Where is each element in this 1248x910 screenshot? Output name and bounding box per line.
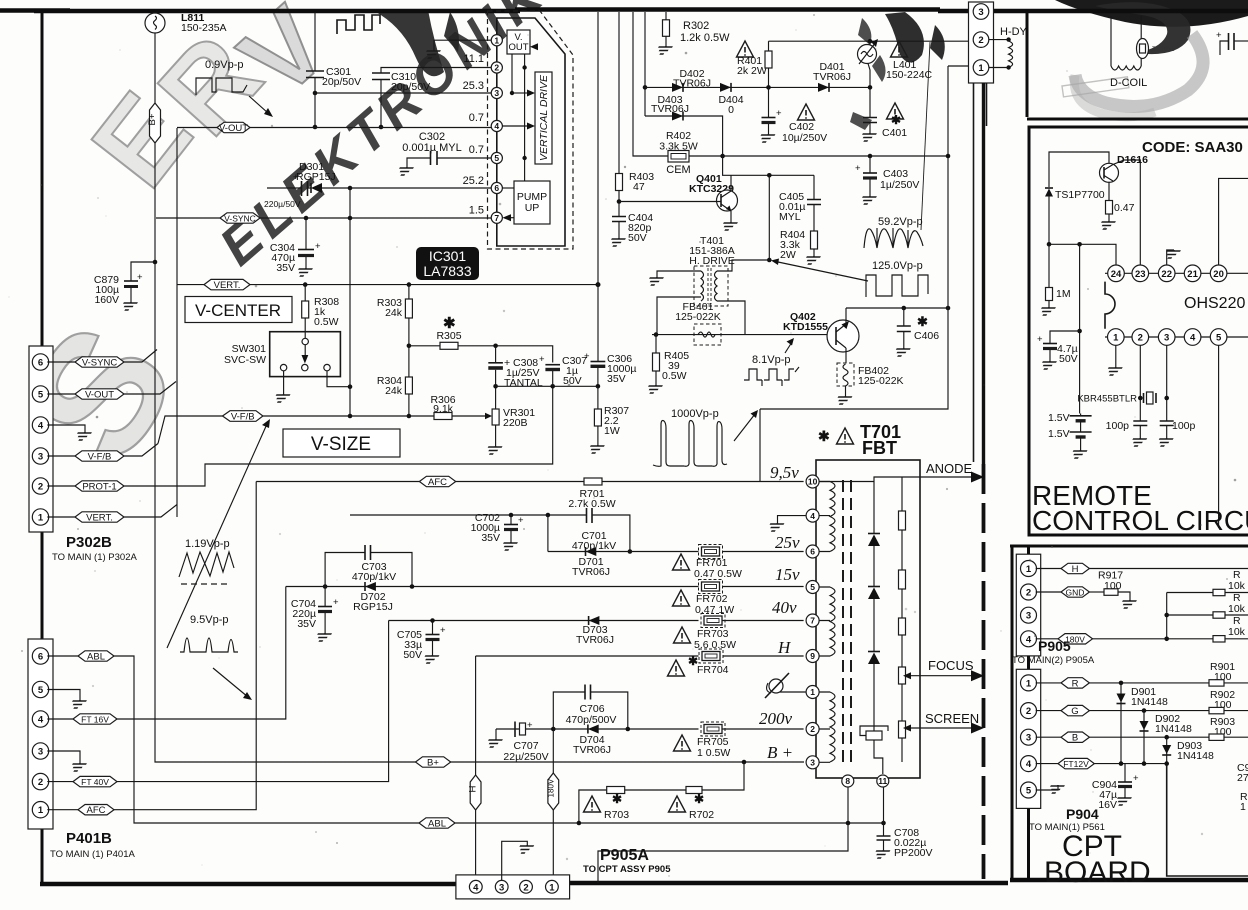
svg-text:ABL: ABL: [87, 652, 105, 663]
transistor D1616: [1100, 163, 1119, 182]
svg-text:FR704: FR704: [697, 664, 729, 676]
pin5 wire C302 right: [437, 157, 491, 159]
pin4 V-OUT line: [250, 127, 491, 129]
junction L401 top: [868, 39, 873, 44]
vertical x769 drop: [768, 175, 770, 260]
svg-text:TVR06J: TVR06J: [573, 744, 611, 756]
P401B pin 5: [32, 681, 48, 697]
junction R702 riser: [742, 760, 747, 765]
ground C404: [608, 238, 626, 246]
diode D402: [672, 83, 683, 92]
svg-text:T1 1051: T1 1051: [1152, 47, 1175, 53]
junction C304: [304, 216, 309, 221]
svg-text:9: 9: [810, 651, 815, 661]
H-DY pin1 wire: [948, 65, 969, 67]
svg-text:0.47: 0.47: [1114, 202, 1135, 214]
capacitor C702: [504, 515, 524, 542]
P905 pin 4: [1021, 631, 1037, 647]
svg-text:TS1P7700: TS1P7700: [1055, 189, 1105, 201]
svg-text:3: 3: [1026, 611, 1031, 622]
resistor R903: [1209, 734, 1224, 740]
SW301 right stub: [327, 371, 350, 387]
T401 primary top ground stub: [646, 271, 701, 285]
ferrite bead FB402: [837, 363, 854, 396]
junction 4.7u: [1077, 329, 1082, 334]
svg-text:1µ/250V: 1µ/250V: [880, 179, 919, 191]
P302B pin 6: [32, 354, 48, 370]
svg-text:4: 4: [494, 121, 499, 131]
IC pin 23: [1132, 265, 1149, 282]
pin5 ground stub: [1036, 785, 1065, 793]
svg-text:1.2k 0.5W: 1.2k 0.5W: [680, 32, 730, 44]
capacitor C306: [584, 351, 605, 386]
flag H oval: [468, 775, 481, 810]
svg-text:LA7833: LA7833: [423, 263, 471, 279]
flag G cpt: [1036, 705, 1248, 717]
HV winding line: [873, 482, 875, 700]
svg-text:35V: 35V: [297, 618, 316, 630]
svg-text:2: 2: [38, 777, 43, 788]
D-COIL left lead: [1110, 16, 1112, 66]
D402 line: [645, 86, 870, 88]
junction C306 bottom: [596, 384, 601, 389]
wire ABL net: [114, 656, 884, 823]
svg-text:+: +: [855, 163, 861, 174]
wire V-SYNC to bus: [124, 350, 157, 363]
capacitor 4.7u 50V: [1037, 331, 1080, 361]
junction collector right: [767, 173, 772, 178]
svg-text:BOARD: BOARD: [1044, 856, 1151, 889]
callout arrow 1000: [734, 410, 758, 441]
diode TS1P7700: [1045, 188, 1053, 244]
diode D403: [672, 112, 683, 121]
bleeder resistor 5: [899, 721, 906, 738]
capacitor C704: [318, 587, 339, 634]
IC301 pin 7: [491, 212, 502, 223]
svg-text:4: 4: [810, 511, 815, 521]
svg-text:125.0Vp-p: 125.0Vp-p: [872, 260, 923, 272]
svg-text:24k: 24k: [385, 385, 403, 397]
junction FT12V D902: [1142, 761, 1147, 766]
line H: [476, 655, 804, 657]
ground C704: [314, 633, 332, 641]
wire VERT to bus: [124, 505, 177, 518]
junction D903 top: [1164, 735, 1169, 740]
flag FT 40V pin2: [47, 776, 117, 787]
svg-text:B+: B+: [427, 758, 439, 769]
svg-text:TVR06J: TVR06J: [813, 71, 851, 83]
svg-text:10k: 10k: [1228, 603, 1246, 615]
connector P905A body: [456, 875, 570, 899]
P401B pin 2: [32, 773, 48, 789]
vertical D301 bus lower: [349, 285, 351, 416]
connector P905 body: [1016, 554, 1040, 656]
svg-text:220B: 220B: [503, 417, 528, 429]
IC pin 4: [1184, 329, 1201, 346]
resistor R901: [1209, 680, 1224, 686]
LEFT CONNECTORS: [28, 12, 884, 860]
ground 100p left: [1129, 438, 1147, 446]
P401B pin 4: [32, 711, 48, 727]
T701 pin 9: [806, 650, 819, 663]
SW301 left ground: [272, 371, 290, 402]
svg-text:1M: 1M: [1056, 288, 1071, 300]
capacitor C403: [855, 156, 877, 196]
P905 heavy stubs: [1027, 546, 1030, 669]
svg-text:1.5V: 1.5V: [1048, 428, 1070, 440]
svg-text:47: 47: [633, 181, 645, 193]
junction R308 tap: [303, 282, 308, 287]
svg-text:+: +: [776, 108, 782, 119]
svg-text:160V: 160V: [94, 294, 119, 306]
svg-text:✱: ✱: [917, 314, 928, 329]
yoke box border: [1027, 10, 1248, 119]
svg-text:0: 0: [728, 104, 734, 116]
svg-text:ANODE: ANODE: [926, 461, 973, 476]
svg-text:✱: ✱: [891, 113, 901, 127]
capacitor C707: [515, 720, 533, 737]
svg-text:P302B: P302B: [66, 534, 112, 551]
IC301 pin 4: [491, 120, 502, 131]
SW301 contacts: [280, 338, 330, 371]
IC pin 20: [1210, 265, 1227, 282]
ground VR301: [484, 446, 502, 454]
svg-text:FBT: FBT: [862, 438, 897, 458]
junction C705: [430, 618, 435, 623]
svg-text:UP: UP: [525, 202, 540, 214]
svg-text:+: +: [137, 272, 143, 283]
junction pin8 ABL: [846, 821, 851, 826]
svg-text:+: +: [1216, 30, 1222, 41]
svg-text:4: 4: [473, 882, 479, 893]
junction D701 left leg: [546, 513, 551, 518]
transistor Q402: [827, 320, 859, 352]
svg-text:R302: R302: [683, 20, 709, 32]
svg-text:6: 6: [494, 183, 499, 193]
flag B+ mid: [416, 757, 451, 769]
svg-text:35V: 35V: [607, 373, 626, 385]
junction bus VR301: [493, 384, 498, 389]
H-DY pin 2: [973, 32, 989, 48]
junction ABL R703: [577, 821, 582, 826]
diode D902: [1140, 711, 1149, 764]
svg-text:1.5: 1.5: [469, 205, 484, 217]
svg-text:10k: 10k: [1228, 626, 1246, 638]
P302B pin 1: [32, 509, 48, 525]
svg-text:2: 2: [810, 724, 815, 734]
svg-text:3: 3: [499, 882, 504, 893]
warning triangle FR702: [673, 590, 690, 606]
ground C403: [859, 196, 877, 204]
crystal KBR455BTLR: [1138, 392, 1169, 404]
svg-text:2W: 2W: [780, 249, 796, 261]
T701 pin 1: [806, 686, 819, 699]
junction pin6 branch: [348, 186, 353, 191]
svg-text:2: 2: [38, 482, 43, 493]
junction C401 top: [868, 85, 873, 90]
battery bus vertical: [1079, 244, 1081, 413]
capacitor C308 tantal: [488, 346, 503, 387]
IC301 BLOCK: [156, 11, 573, 285]
svg-text:6: 6: [38, 358, 43, 369]
svg-text:D-COIL: D-COIL: [1110, 77, 1147, 89]
svg-text:P905A: P905A: [600, 847, 649, 864]
ground 0.47: [1098, 221, 1116, 229]
ground R302: [655, 46, 673, 54]
heavy vertical solid: [982, 83, 985, 464]
svg-text:4: 4: [1190, 333, 1196, 344]
inductor L401: [858, 39, 879, 87]
capacitor C406: [897, 308, 911, 348]
svg-text:PROT-1: PROT-1: [82, 482, 116, 493]
D403 branch wire: [645, 116, 723, 156]
svg-text:IC301: IC301: [429, 248, 467, 264]
svg-text:1N4148: 1N4148: [1155, 723, 1192, 735]
svg-text:3.3k 5W: 3.3k 5W: [659, 141, 698, 153]
top anode line: [820, 477, 902, 482]
flyback T701 body: [816, 460, 920, 778]
svg-text:✱: ✱: [818, 428, 830, 444]
ground C402: [757, 134, 775, 142]
junction battery bus: [1077, 242, 1082, 247]
pin3 ground jog: [502, 841, 535, 880]
svg-text:R703: R703: [604, 809, 629, 821]
svg-text:25.3: 25.3: [463, 80, 484, 92]
warning triangle R401: [737, 41, 754, 57]
svg-text:RGP15J: RGP15J: [353, 601, 393, 613]
junction ladder mid: [1164, 613, 1169, 618]
junction pin11 ABL: [881, 821, 886, 826]
HV diode 1: [868, 534, 880, 547]
Q401 emitter ground: [720, 211, 738, 230]
svg-text:3: 3: [38, 747, 43, 758]
svg-text:TVR06J: TVR06J: [576, 634, 614, 646]
svg-text:2: 2: [523, 882, 528, 893]
svg-text:V-OUT: V-OUT: [219, 123, 248, 134]
svg-text:24: 24: [1111, 269, 1122, 280]
svg-text:+: +: [440, 625, 446, 636]
capacitor C879 plates: [124, 272, 143, 302]
C703 loop: [325, 553, 412, 587]
svg-text:V-SYNC: V-SYNC: [224, 214, 256, 224]
connector P401B body: [28, 639, 53, 829]
svg-text:FT 16V: FT 16V: [81, 715, 109, 725]
resistor R307: [594, 386, 601, 445]
junction C403 top: [868, 154, 873, 159]
C301 column wire: [314, 12, 316, 127]
resistor R303: [405, 285, 412, 346]
arrow into VERTICAL DRIVE pin4: [502, 123, 535, 130]
junction SW301 to bus: [348, 384, 353, 389]
svg-text:+: +: [539, 354, 545, 365]
junction D902 top: [1142, 708, 1147, 713]
junction C308 top: [493, 344, 498, 349]
ground pin22: [1163, 250, 1181, 265]
WAVEFORMS LEFT: [179, 538, 252, 700]
diode D703: [589, 616, 600, 625]
warning triangle FR705: [674, 735, 691, 751]
125.0Vp-p waveform: [866, 275, 928, 297]
remote control circuit box border: [1029, 127, 1248, 535]
cpt board bottom border: [1010, 878, 1248, 883]
junction R303 tap: [407, 282, 412, 287]
T701 pin 8: [842, 775, 854, 787]
svg-text:RGP15J: RGP15J: [296, 171, 336, 183]
watermark blob smears: [850, 18, 886, 130]
capacitor 100p right: [1160, 421, 1174, 438]
svg-text:6: 6: [810, 547, 815, 557]
svg-text:50V: 50V: [563, 375, 582, 387]
screen VR: [860, 700, 888, 774]
P302B pin 5: [32, 386, 48, 402]
svg-text:125-022K: 125-022K: [858, 375, 904, 387]
P904 heavy stub below: [1027, 808, 1030, 881]
arrow PUMP UP to pin7: [502, 214, 514, 221]
FBT SECTION: [256, 422, 984, 899]
P904 pin 5: [1021, 782, 1037, 798]
resistor R308: [302, 285, 309, 338]
wire pin6 to IC: [350, 187, 491, 189]
junction T401 drive: [767, 258, 772, 263]
svg-text:TO MAIN (1) P302A: TO MAIN (1) P302A: [52, 552, 137, 563]
P401B pin 3: [32, 743, 48, 759]
IC pin 1: [1108, 329, 1125, 346]
ground 4.7u: [1039, 361, 1057, 369]
svg-text:2: 2: [1138, 333, 1143, 344]
T701 warning triangle: [837, 428, 854, 444]
IC301 pin 1: [491, 35, 502, 46]
watermark small banner in yoke: [1062, 77, 1129, 97]
svg-text:VERTICAL DRIVE: VERTICAL DRIVE: [538, 74, 550, 161]
svg-text:B: B: [1072, 733, 1078, 744]
ground 1M: [1038, 307, 1056, 315]
svg-text:R305: R305: [436, 330, 461, 342]
svg-text:1.19Vp-p: 1.19Vp-p: [185, 538, 230, 550]
flag V-SYNC pin6: [47, 357, 124, 369]
resistor 1M: [1046, 244, 1053, 307]
T401 secondary bottom wire: [717, 301, 745, 335]
svg-text:3: 3: [978, 7, 983, 18]
svg-text:9,5v: 9,5v: [770, 463, 799, 482]
ground at P401B pin5: [69, 700, 87, 708]
svg-text:TVR06J: TVR06J: [673, 78, 711, 90]
svg-text:+: +: [584, 351, 590, 362]
flag V-OUT top: [177, 122, 250, 134]
P905 pin 3: [1021, 607, 1037, 623]
svg-text:VERT.: VERT.: [214, 280, 241, 291]
svg-text:MYL: MYL: [779, 211, 801, 223]
transformer T401: [694, 266, 728, 306]
svg-text:20p/50V: 20p/50V: [322, 76, 361, 88]
RIGHT PANELS: [1012, 16, 1248, 889]
H-DY stem lines: [973, 83, 975, 462]
svg-text:7: 7: [494, 213, 499, 223]
junction internal pin5: [522, 156, 526, 160]
IC pin 3: [1158, 329, 1175, 346]
svg-text:SVC-SW: SVC-SW: [224, 354, 266, 366]
svg-text:21: 21: [1187, 269, 1198, 280]
pin8 lower wire: [598, 787, 848, 883]
svg-text:25.2: 25.2: [463, 175, 484, 187]
vertical x948 net: [760, 66, 948, 409]
T401 secondary top wire: [717, 260, 769, 271]
junction base tap: [617, 199, 622, 204]
flag VERT. mid: [177, 279, 250, 291]
pin1 ground wire: [434, 40, 491, 50]
junction x948 CEM: [946, 154, 951, 159]
Q402 collector line: [846, 307, 948, 309]
svg-text:2: 2: [1026, 588, 1031, 599]
ground at P302B pin4: [74, 432, 92, 440]
flag 180V cpt: [1036, 634, 1248, 645]
capacitor C703: [365, 545, 371, 560]
ground C401: [859, 133, 877, 141]
svg-text:470p/500V: 470p/500V: [566, 714, 617, 726]
T701 pin 11: [877, 775, 889, 787]
P904 pin 2: [1021, 703, 1037, 719]
bleeder resistor 2: [899, 570, 906, 589]
svg-text:P905: P905: [1038, 638, 1071, 654]
svg-text:35V: 35V: [276, 262, 295, 274]
pin5 riser down: [1218, 346, 1220, 529]
svg-text:35V: 35V: [481, 532, 500, 544]
ground C707: [485, 739, 503, 747]
TS1P7700 net wire: [1049, 152, 1109, 187]
svg-text:AFC: AFC: [87, 805, 106, 816]
IC301 pin 2: [491, 62, 502, 73]
FOCUS arrow: [903, 658, 984, 681]
T701 pin 7: [806, 614, 819, 627]
C706 loop: [553, 692, 628, 729]
svg-text:15v: 15v: [775, 565, 800, 584]
svg-text:20p/50V: 20p/50V: [391, 81, 430, 93]
svg-text:5: 5: [38, 390, 44, 401]
T701 pin 3: [806, 756, 819, 769]
svg-text:24k: 24k: [385, 307, 403, 319]
svg-text:50V: 50V: [1059, 353, 1078, 365]
svg-text:TO MAIN (1) P401A: TO MAIN (1) P401A: [50, 849, 135, 860]
ground 100p right: [1155, 438, 1173, 446]
ladder row3: [1213, 636, 1225, 642]
wire PROT-1 net: [124, 386, 553, 486]
ground C302: [396, 167, 414, 175]
Q401 collector wire: [730, 175, 732, 191]
capacitor 100p left: [1133, 421, 1147, 438]
svg-text:180V: 180V: [546, 778, 555, 797]
svg-text:125-022K: 125-022K: [675, 311, 721, 323]
junction C307 bottom: [550, 384, 555, 389]
IC bottom pin line: [1105, 336, 1248, 338]
sensor T1 oval: [1137, 39, 1149, 59]
H column: [475, 656, 477, 875]
svg-text:5: 5: [494, 153, 499, 163]
svg-text:1: 1: [978, 63, 984, 74]
battery cells: [1070, 414, 1092, 451]
svg-text:TANTAL: TANTAL: [504, 377, 543, 389]
box PUMP UP: [514, 181, 550, 224]
P401B pin 6: [32, 648, 48, 664]
top border: [0, 10, 1248, 12]
svg-text:B+: B+: [147, 113, 158, 125]
junction R304 VFB: [407, 414, 412, 419]
svg-text:V-F/B: V-F/B: [88, 452, 112, 463]
callout line 59.2: [921, 42, 930, 230]
svg-text:5: 5: [38, 685, 44, 696]
junction loop right: [628, 549, 633, 554]
vertical bus x598: [597, 12, 599, 362]
1.19 dashed baseline: [181, 583, 230, 585]
junction C704: [323, 584, 328, 589]
